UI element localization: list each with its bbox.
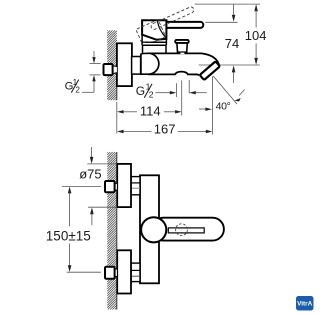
wall hatch (bottom view) [107, 152, 116, 310]
svg-text:G: G [136, 84, 145, 98]
cartridge dome (D shape) [141, 53, 159, 74]
solid lever arm [160, 22, 203, 28]
diverter cup body [177, 43, 187, 52]
escutcheon top (Ø75) [117, 164, 131, 207]
dashed raised handle (cap + lever) [136, 5, 200, 48]
extension line y=64.8 spout outlet level [199, 64, 260, 66]
dimension 74 [225, 4, 239, 83]
40 degree arc arrows [199, 90, 245, 111]
wall hatch (top view) [107, 30, 117, 100]
G1/2 outlet label with arrow (top view) [136, 81, 154, 99]
supply nipple square G1/2 (top view) [104, 64, 117, 75]
body rectangle (bottom view) [140, 175, 159, 283]
114 right extension line [181, 80, 183, 115]
diverter cup rim [175, 40, 189, 43]
body horizontal top line [148, 52, 202, 54]
svg-text:ø75: ø75 [79, 167, 101, 182]
dimension 167 [117, 122, 212, 137]
threaded block top [131, 177, 140, 195]
lever slot in capsule [168, 228, 204, 233]
VitrA logo [296, 296, 314, 311]
escutcheon bottom (Ø75) [117, 250, 131, 293]
G1/2 outlet dimension arrows [156, 91, 207, 94]
dimension 114 [117, 103, 182, 118]
spout nozzle (rotated) [200, 61, 220, 80]
step ring between flange and body [132, 57, 141, 75]
threaded block bottom [131, 263, 140, 282]
extension line y=22.2 from solid lever [205, 21, 237, 23]
outlet extension lines [175, 83, 177, 97]
supply square G1/2 top (bottom view) [105, 181, 117, 192]
svg-text:2: 2 [75, 86, 80, 95]
body right elbow outer curve [202, 53, 220, 66]
left G1/2 label [65, 78, 81, 95]
supply square G1/2 bottom (bottom view) [105, 267, 117, 279]
svg-text:104: 104 [245, 28, 267, 43]
flange / wall escutcheon (top view) [117, 43, 132, 86]
spout tip extension line [211, 76, 213, 134]
svg-text:VitrA: VitrA [297, 301, 313, 308]
handle cap [142, 20, 166, 39]
body bottom line with bump (aerator) [148, 72, 199, 76]
svg-text:74: 74 [225, 36, 239, 51]
handle capsule (bottom view) [152, 218, 224, 241]
left G1/2 fitting dimension refs [82, 51, 101, 92]
dimension 150±15 [46, 186, 101, 272]
svg-text:2: 2 [149, 90, 154, 100]
dashed screw circle [176, 224, 188, 236]
dimension 104 [245, 4, 267, 65]
handle cap facet line [157, 20, 166, 38]
dimension Ø75 [79, 147, 117, 225]
wall face line segments (bottom view) [116, 152, 118, 164]
extension line y=4 from dashed handle [195, 3, 260, 5]
svg-text:150±15: 150±15 [46, 228, 91, 243]
neck ring under cap [142, 35, 166, 54]
svg-text:40°: 40° [216, 100, 231, 112]
cartridge circle (bottom view) [141, 217, 166, 242]
wall face line below flange (top view) [116, 86, 118, 100]
diverter cup base [180, 53, 184, 55]
40 degree diagonal [213, 76, 237, 104]
svg-text:167: 167 [154, 122, 176, 137]
svg-text:114: 114 [140, 103, 161, 118]
wall face extension line [116, 102, 118, 134]
